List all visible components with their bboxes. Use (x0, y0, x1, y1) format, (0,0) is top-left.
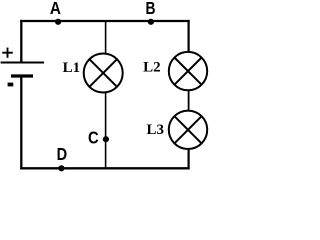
battery - polarity mark (8, 83, 14, 87)
wire right branch top (top rail down to lamp L2) (188, 20, 190, 53)
svg-text:L2: L2 (143, 60, 161, 76)
node C (103, 136, 109, 142)
node D (58, 165, 64, 171)
svg-text:L1: L1 (63, 60, 81, 76)
lamp L1 (84, 54, 123, 93)
lamp L3 (169, 111, 207, 149)
lamp L2 (169, 52, 207, 90)
svg-text:D: D (57, 145, 68, 165)
wire bottom rail (left corner through node D to right corner) (20, 167, 189, 169)
svg-text:C: C (88, 128, 99, 148)
wire middle branch top (top rail down to lamp L1) (105, 21, 107, 54)
battery + polarity mark (2, 48, 13, 58)
node A (55, 19, 61, 25)
wire right branch bottom (lamp L3 down to bottom rail) (188, 149, 190, 170)
wire left branch lower (battery - plate down to bottom rail) (20, 76, 22, 169)
svg-text:A: A (50, 0, 61, 19)
wire right branch middle (lamp L2 down to lamp L3) (188, 90, 190, 111)
svg-text:B: B (145, 0, 155, 19)
battery positive plate (1, 62, 44, 64)
wire middle branch bottom (lamp L1 through node C to bottom rail) (105, 92, 107, 168)
wire left branch upper (top rail down to battery + plate) (20, 20, 22, 62)
wire top rail (node A to node B to right corner) (20, 20, 189, 22)
node B (148, 19, 154, 25)
battery negative plate (11, 74, 33, 77)
svg-text:L3: L3 (147, 122, 165, 138)
